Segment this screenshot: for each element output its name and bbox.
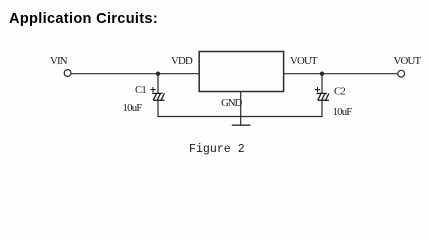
capacitor C2 polarity plus [315, 87, 320, 92]
junction node C1/VDD [156, 72, 160, 76]
svg-text:VOUT: VOUT [290, 55, 318, 67]
ground symbol [232, 124, 251, 126]
wire VOUT pin to terminal [284, 73, 398, 75]
wire bottom rail [157, 116, 322, 118]
capacitor C1 polarity plus [150, 87, 155, 92]
svg-text:10uF: 10uF [333, 106, 353, 118]
capacitor C2 symbol [317, 93, 330, 100]
svg-text:VDD: VDD [171, 55, 193, 67]
wire GND pin [240, 92, 242, 126]
wire C1 branch upper [157, 74, 159, 94]
svg-text:GND: GND [221, 97, 242, 109]
svg-text:10uF: 10uF [123, 102, 143, 114]
wire C1 branch lower [157, 100, 159, 116]
svg-text:VIN: VIN [50, 55, 68, 67]
wire VIN to VDD pin [71, 73, 199, 75]
svg-text:C2: C2 [334, 85, 345, 97]
junction node C2/VOUT [320, 72, 324, 76]
terminal VIN circle [64, 70, 71, 77]
svg-text:Application Circuits:: Application Circuits: [9, 11, 158, 27]
op-amp / regulator IC box U1 [199, 52, 283, 92]
wire C2 branch upper [321, 74, 323, 94]
terminal VOUT circle [398, 70, 405, 77]
svg-text:Figure 2: Figure 2 [189, 143, 245, 156]
svg-text:C1: C1 [135, 84, 146, 96]
capacitor C1 symbol [152, 93, 165, 100]
wire C2 branch lower [321, 100, 323, 116]
svg-text:VOUT: VOUT [394, 55, 422, 67]
